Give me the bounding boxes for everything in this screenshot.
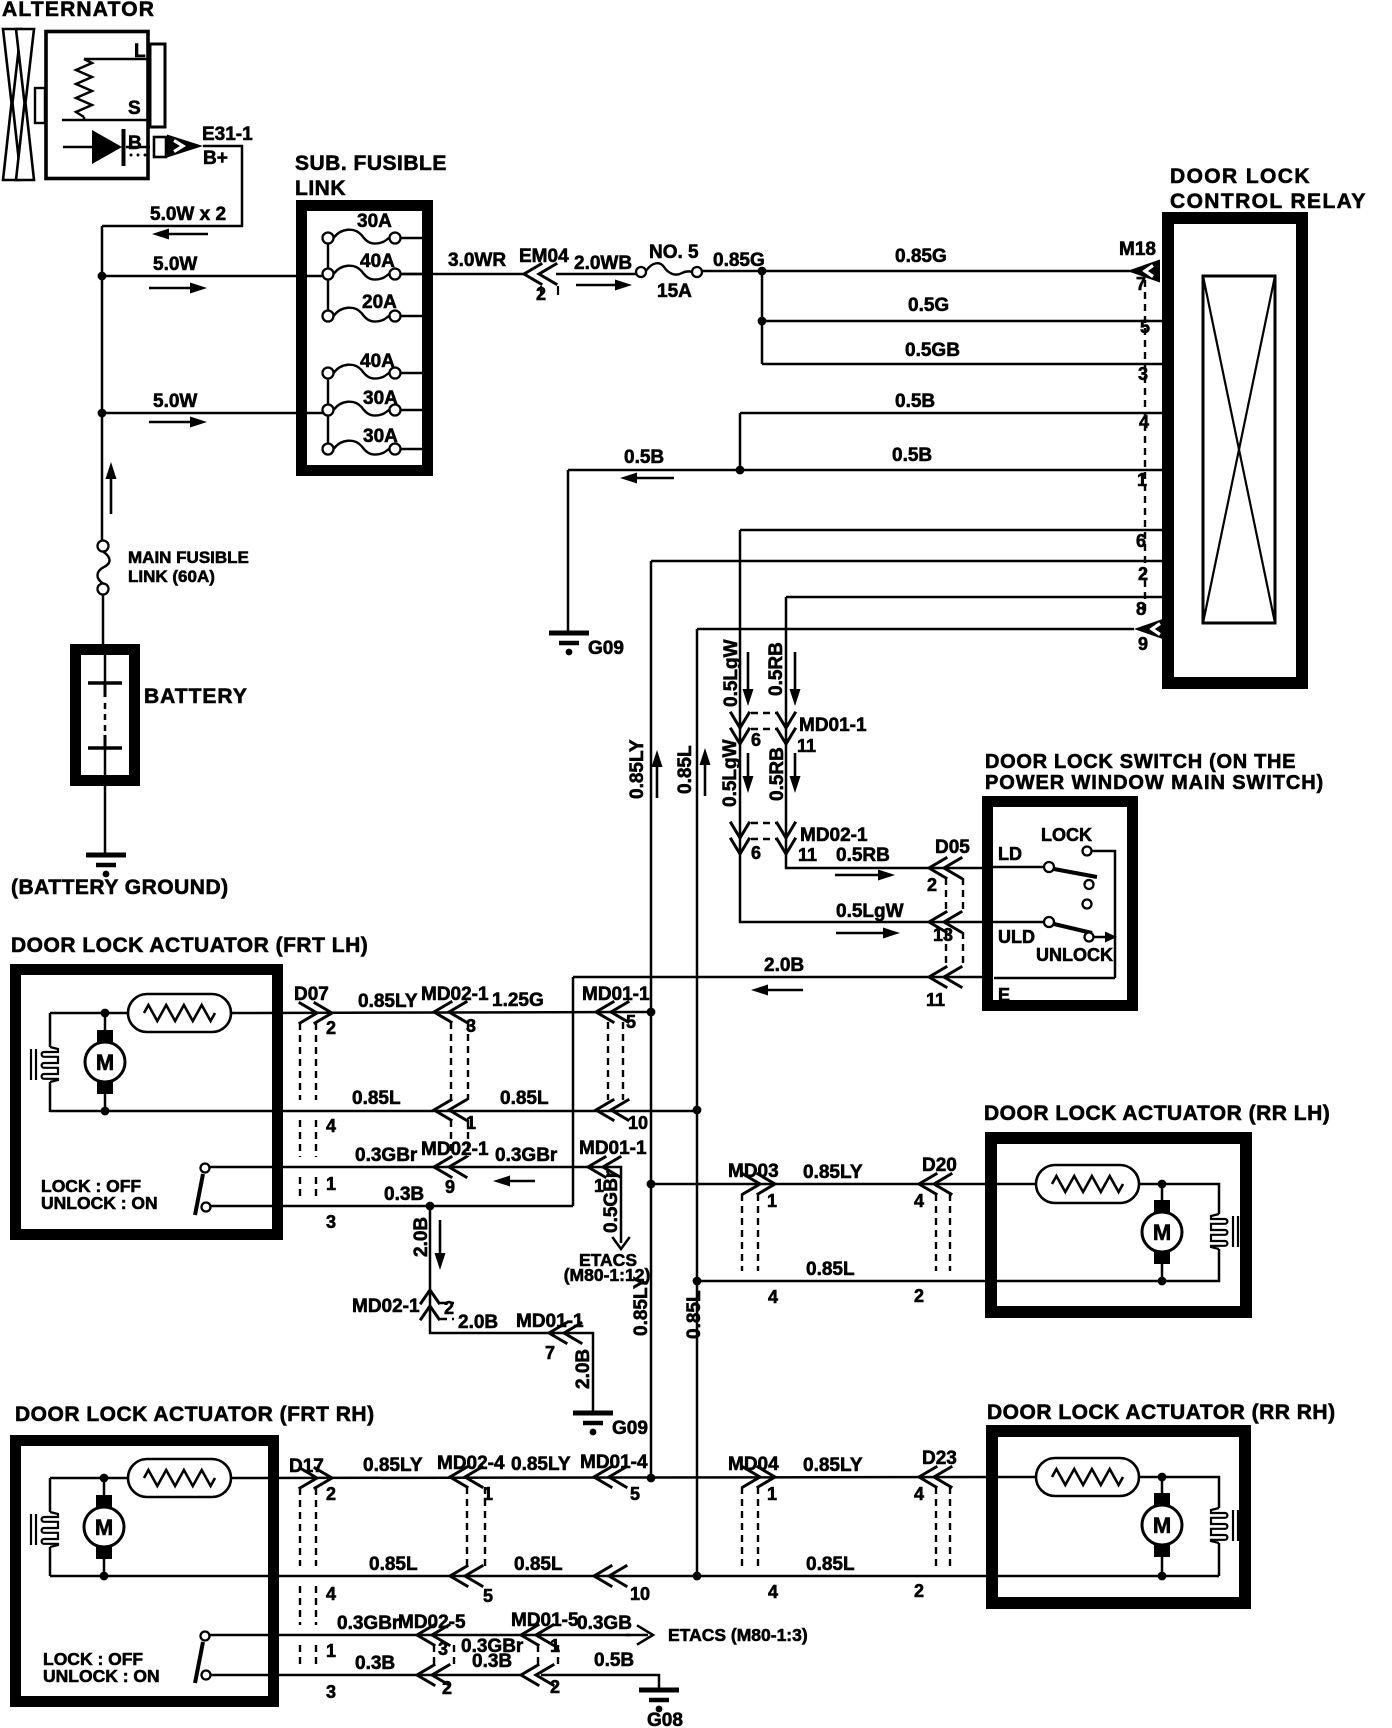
arrow ETACS 1 [613,1238,629,1249]
node 0.5G junction [758,317,767,326]
wire 2.0B vertical from D05 [572,977,575,1206]
label 0.5LgW [721,639,742,707]
label 0.3B FRT RH b [472,1651,512,1672]
svg-text:B+: B+ [203,148,228,169]
switch LD wire and lever [988,862,1097,889]
wire 5.0W lower [102,412,325,415]
label 0.3GBr FRT RH a [337,1613,400,1634]
svg-text:D20: D20 [922,1155,957,1176]
label UNLOCK ON FRT RH [43,1666,160,1686]
svg-text:DOOR LOCK ACTUATOR (FRT RH): DOOR LOCK ACTUATOR (FRT RH) [15,1403,375,1426]
svg-text:E31-1: E31-1 [202,124,253,145]
svg-text:MD01-5: MD01-5 [511,1610,579,1631]
svg-text:3: 3 [466,1016,476,1036]
svg-text:9: 9 [445,1177,455,1197]
svg-text:DOOR LOCK: DOOR LOCK [1170,165,1311,188]
FRT LH left branch [49,1013,52,1112]
svg-text:MD01-1: MD01-1 [516,1311,584,1332]
svg-text:0.85L: 0.85L [352,1088,401,1109]
alternator pulley [3,29,45,180]
label 0.3GBr FRT RH b [461,1636,524,1657]
FRT RH coil [31,1512,58,1547]
connector MD01-1 row2 [596,1100,648,1133]
connector MD02-4 [437,1453,505,1606]
wire 0.3B mid [437,1674,521,1677]
svg-text:11: 11 [797,736,816,756]
RR RH coil [1211,1508,1238,1543]
svg-text:0.3B: 0.3B [355,1653,395,1674]
svg-text:7: 7 [545,1343,555,1363]
svg-text:MD02-4: MD02-4 [437,1453,505,1474]
battery ground symbol [86,855,126,877]
svg-text:UNLOCK: UNLOCK [1036,945,1113,965]
actuator RR RH box [992,1431,1245,1603]
svg-text:0.5B: 0.5B [895,391,935,412]
svg-text:MD01-4: MD01-4 [580,1452,648,1473]
svg-text:5: 5 [630,1484,640,1504]
svg-text:D17: D17 [289,1456,324,1477]
svg-text:0.85G: 0.85G [895,246,947,267]
wire 0.3B row FRT RH [210,1674,437,1677]
svg-text:LD: LD [998,844,1022,864]
sub fusible link box [302,206,428,471]
svg-text:0.5GBr: 0.5GBr [601,1170,622,1233]
label ULD [998,927,1035,947]
label 0.85LY RR RH [803,1455,863,1476]
wire 0.5B pin4 drop [739,413,742,470]
svg-text:SUB. FUSIBLE: SUB. FUSIBLE [295,152,447,175]
switch middle contact [1083,900,1092,909]
label 0.85LY vert2 [631,1276,652,1336]
node 0.85L RH junction [693,1572,702,1581]
svg-text:0.5RB: 0.5RB [766,642,787,696]
svg-text:POWER WINDOW MAIN SWITCH): POWER WINDOW MAIN SWITCH) [985,772,1324,794]
wire 0.5GB pin3 [762,363,1166,366]
FRT LH coil [31,1047,58,1082]
wire battery bus vertical [101,226,104,545]
arrow ETACS 2 [626,1626,653,1644]
label 0.85L RR RH [806,1554,855,1575]
svg-text:0.85LY: 0.85LY [627,739,648,799]
main fusible link fuse [97,541,248,595]
pin 5 [1140,317,1150,337]
connector MD04 [728,1454,779,1602]
alternator terminal S [62,98,148,120]
pin 2 [1138,564,1148,584]
wire fuse to battery [102,594,105,650]
node 0.5B junction [736,466,745,475]
svg-text:9: 9 [1138,634,1148,654]
label 5.0W upper [153,254,197,275]
label 0.5B right [892,445,932,466]
node FRT LH bottom [101,1107,110,1116]
connector MD01-5 row4 [521,1665,553,1685]
arrow up 0.85LY [652,750,663,798]
connector MD01-1 row1 [582,984,650,1100]
svg-text:0.5LgW: 0.5LgW [836,901,904,922]
relay K1 box [1168,218,1302,683]
svg-text:0.85L: 0.85L [514,1554,563,1575]
RR LH motor M [1142,1184,1182,1281]
svg-text:15A: 15A [657,281,692,302]
svg-text:0.5GB: 0.5GB [905,340,960,361]
svg-text:M: M [1153,1220,1171,1245]
svg-text:11: 11 [798,845,817,865]
label LOCK OFF FRT LH [41,1176,141,1196]
svg-text:0.5B: 0.5B [892,445,932,466]
svg-text:MD02-1: MD02-1 [800,825,868,846]
label 0.5GB [905,340,960,361]
svg-text:4: 4 [326,1116,336,1136]
svg-text:4: 4 [914,1191,924,1211]
svg-text:5: 5 [626,1012,636,1032]
battery ground label [11,876,229,899]
svg-text:MD02-1: MD02-1 [352,1296,420,1317]
arrow left 5.0Wx2 [152,229,208,240]
wire 5.0W upper [102,275,325,278]
svg-text:3: 3 [1138,364,1148,384]
label 0.85LY row1 [358,991,418,1012]
wire 2.0B switch E [573,976,990,979]
fuse 30A #1 [323,211,427,244]
node FRT RH bottom [100,1572,109,1581]
svg-text:0.85LY: 0.85LY [803,1162,863,1183]
pin 3 [1138,364,1148,384]
svg-text:4: 4 [768,1582,778,1602]
node 0.85LY row1 junction [647,1008,656,1017]
svg-text:LINK (60A): LINK (60A) [128,567,215,586]
svg-text:ETACS (M80-1:3): ETACS (M80-1:3) [668,1625,808,1645]
arrow right 5.0W lower [149,417,207,428]
svg-text:UNLOCK : ON: UNLOCK : ON [41,1193,158,1213]
svg-text:1: 1 [483,1484,493,1504]
svg-text:2.0WB: 2.0WB [574,253,632,274]
svg-text:LINK: LINK [295,177,346,200]
wire 0.3B row4 [210,1205,573,1208]
svg-text:2.0B: 2.0B [573,1349,594,1389]
label 0.85LY RR LH [803,1162,863,1183]
label 3.0WR [448,250,506,271]
svg-text:DOOR LOCK ACTUATOR (FRT LH): DOOR LOCK ACTUATOR (FRT LH) [11,934,368,957]
svg-text:NO. 5: NO. 5 [649,242,699,263]
svg-text:0.3GBr: 0.3GBr [495,1145,558,1166]
wire 0.5LgW vertical [740,530,990,922]
svg-text:0.85L: 0.85L [675,745,696,794]
label 0.5LgW mid [720,739,741,807]
arrow left 0.3GBr [493,1176,535,1187]
arrow right 2.0WB [576,280,632,291]
wire 0.85G to relay pin7 [702,270,1130,273]
wire 0.5B pin1 [568,469,1166,472]
label 0.85G [713,250,765,271]
svg-text:ULD: ULD [998,927,1035,947]
svg-text:2: 2 [927,875,937,895]
svg-text:4: 4 [768,1287,778,1307]
wire 0.85L row2 [105,1110,697,1113]
svg-text:0.85L: 0.85L [500,1088,549,1109]
label 0.85L FRT RH b [514,1554,563,1575]
fuse 30A #2 [323,388,427,416]
fuse bus upper [327,240,329,316]
FRT LH motor M [85,1013,125,1111]
svg-text:1: 1 [767,1484,777,1504]
battery cells [88,655,122,855]
FRT RH left branch [49,1478,52,1576]
node RR LH row2 junction [693,1277,702,1286]
wire B+ to bus [102,146,242,226]
label UNLOCK [1036,945,1113,965]
svg-text:0.85L: 0.85L [369,1554,418,1575]
svg-text:MD02-1: MD02-1 [421,1139,489,1160]
svg-text:1: 1 [466,1113,476,1133]
label 0.5RB to switch [836,845,890,866]
arrow right 5.0W upper [149,283,207,294]
label 0.85L FRT RH a [369,1554,418,1575]
FRT LH switch [195,1164,211,1216]
FRT LH wire row2 internal [50,1110,105,1113]
fuse 40A #2 [323,351,427,379]
pin 1 [1137,470,1147,490]
svg-text:13: 13 [933,925,953,945]
svg-text:LOCK: LOCK [1041,825,1092,845]
label 0.85L row2a [352,1088,401,1109]
alternator terminal L [134,41,165,127]
svg-text:0.5B: 0.5B [624,447,664,468]
wire 0.85LY row FRT RH [231,1477,1036,1478]
switch unlock contact arrow [1094,932,1117,943]
node 0.85G junction [758,267,767,276]
label ETACS 2 [668,1625,808,1645]
label 0.85L RR LH [806,1259,855,1280]
wire 0.85L row FRT RH [104,1575,1219,1578]
alternator terminal B [154,137,166,157]
door lock actuator RR RH label [987,1401,1336,1424]
pin 6 [1136,531,1146,551]
node RR LH bottom [1158,1277,1167,1286]
connector MD01-4 [580,1452,650,1604]
battery box [76,650,135,781]
label LD [998,844,1022,864]
svg-text:EM04: EM04 [519,246,569,267]
label 0.5LgW to switch [836,901,904,922]
svg-text:0.3GBr: 0.3GBr [337,1613,400,1634]
label 0.5B left [624,447,664,468]
svg-text:1: 1 [326,1641,336,1661]
RR RH wire internal [1139,1477,1219,1576]
svg-text:0.85L: 0.85L [806,1554,855,1575]
node RR LH top [1158,1180,1167,1189]
connector EM04 [519,246,569,304]
arrow down 0.5LgW [743,652,754,706]
battery label [144,685,248,708]
wire pin2 0.85LY horizontal [651,560,1166,563]
door lock switch box [988,802,1133,1006]
svg-text:2: 2 [550,1677,560,1697]
arrow down 2.0B [435,1220,446,1270]
svg-text:G08: G08 [647,1710,683,1728]
svg-text:3: 3 [438,1639,448,1659]
svg-text:DOOR LOCK SWITCH (ON THE: DOOR LOCK SWITCH (ON THE [985,751,1296,773]
svg-text:0.85L: 0.85L [684,1290,705,1339]
RR RH resistor [1036,1458,1139,1496]
arrow down 0.5LgW mid [743,753,754,793]
switch ULD wire and lever [988,917,1094,942]
node RR RH bottom [1158,1572,1167,1581]
svg-text:M: M [96,1050,114,1075]
arrow down 0.5RB mid [790,753,801,793]
svg-text:0.85L: 0.85L [806,1259,855,1280]
svg-text:0.85LY: 0.85LY [511,1454,571,1475]
svg-text:3: 3 [326,1682,336,1702]
label 5.0W lower [153,391,197,412]
label 0.85LY FRT RH b [511,1454,571,1475]
connector D20 [914,1155,957,1306]
wire pin9 0.85L horizontal [697,628,1134,631]
svg-text:5.0W x 2: 5.0W x 2 [150,204,226,225]
actuator FRT LH box [16,970,278,1235]
svg-text:M: M [95,1515,113,1540]
wire 0.85LY vertical [650,561,653,1478]
svg-text:40A: 40A [360,251,395,272]
label 0.5B G08 [594,1650,634,1671]
door lock actuator FRT LH label [11,934,368,957]
label LOCK [1041,825,1092,845]
svg-text:30A: 30A [363,426,398,447]
node bus top junction [98,272,107,281]
svg-text:5: 5 [483,1586,493,1606]
svg-text:1.25G: 1.25G [492,990,544,1011]
node RR LH row1 junction [647,1180,656,1189]
svg-text:20A: 20A [362,292,397,313]
connector MD01-1 pin7 [516,1311,584,1363]
svg-text:30A: 30A [357,211,392,232]
connector M18 arrow pin9 [1134,618,1167,641]
label 0.3GB [577,1613,632,1634]
svg-text:11: 11 [926,990,945,1010]
fuse 30A #3 [323,426,427,455]
svg-text:0.3GBr: 0.3GBr [355,1145,418,1166]
svg-text:0.5G: 0.5G [908,295,949,316]
RR LH coil [1211,1214,1238,1249]
label 0.85G right [895,246,947,267]
svg-text:2: 2 [326,1484,336,1504]
svg-text:D23: D23 [922,1448,957,1469]
svg-text:M18: M18 [1119,239,1156,260]
node FRT RH top [100,1474,109,1483]
svg-text:MD02-1: MD02-1 [421,984,489,1005]
svg-text:DOOR LOCK ACTUATOR (RR RH): DOOR LOCK ACTUATOR (RR RH) [987,1401,1336,1424]
arrow down 0.5RB [790,652,801,706]
connector M18 dashed line [1144,280,1146,616]
label 2.0B rot2 [573,1349,594,1389]
label 2.0B horiz [458,1312,498,1333]
connector D17 [289,1456,336,1702]
wire 0.85LY RR LH [651,1183,1036,1186]
arrow right 0.5LgW [836,928,900,939]
svg-text:3.0WR: 3.0WR [448,250,506,271]
connector D05 [929,837,970,987]
pin 11 D05 [926,990,945,1010]
connector MD01-1 row3 [579,1138,647,1196]
actuator FRT RH box [16,1441,274,1702]
svg-text:MD01-1: MD01-1 [582,984,650,1005]
svg-text:3: 3 [326,1212,336,1232]
label 0.85L row2b [500,1088,549,1109]
ground G08 [639,1690,683,1728]
door lock actuator FRT RH label [15,1403,375,1426]
svg-text:1: 1 [326,1174,336,1194]
wire 3.0WR [400,273,524,276]
label 0.85L vert2 [684,1290,705,1339]
pin 9 [1138,634,1148,654]
wire 0.5RB vertical [786,597,990,868]
FRT RH wire row1 internal [50,1477,128,1480]
svg-text:40A: 40A [360,351,395,372]
svg-text:M: M [1153,1513,1171,1538]
door lock actuator RR LH label [984,1102,1330,1125]
svg-text:2: 2 [444,1298,454,1318]
node 0.3B junction [426,1202,435,1211]
svg-text:2.0B: 2.0B [458,1312,498,1333]
wire 0.5G pin5 [762,320,1166,323]
svg-text:E: E [998,985,1010,1005]
connector D07 [294,984,336,1232]
wire 0.85G branch vertical [761,271,764,364]
wire 0.85L vertical [696,629,699,1576]
wire 0.3GBr row3 [210,1167,621,1243]
label 2.0B [764,955,804,976]
connector MD02-1 row2 [434,1100,476,1133]
pin 2 D05 [927,875,937,895]
label 0.5B pin4 [895,391,935,412]
svg-text:30A: 30A [363,388,398,409]
svg-text:2.0B: 2.0B [764,955,804,976]
label UNLOCK ON FRT LH [41,1193,158,1213]
switch LOCK contact [1083,847,1116,979]
wire 2.0WB [556,273,636,276]
svg-text:MD01-1: MD01-1 [799,715,867,736]
FRT RH wire row2 internal [50,1575,104,1578]
connector MD02-1 row3 [421,1139,489,1197]
connector D23 [914,1448,957,1601]
label 0.5GBr [601,1170,622,1233]
svg-text:2.0B: 2.0B [411,1217,432,1257]
svg-text:0.85LY: 0.85LY [363,1455,423,1476]
svg-text:0.85LY: 0.85LY [631,1276,652,1336]
arrow right 0.5RB [835,870,895,881]
svg-text:1: 1 [767,1191,777,1211]
svg-text:0.3GB: 0.3GB [577,1613,632,1634]
pin 8 [1136,599,1146,619]
connector MD01-5 [511,1610,579,1697]
FRT RH motor M [84,1478,124,1576]
wire pin6 0.5LgW horizontal [740,529,1166,532]
svg-text:D05: D05 [935,837,970,858]
label 2.0WB [574,253,632,274]
node FRT LH top [101,1009,110,1018]
sub fusible link label [295,152,447,200]
node RR RH top [1158,1473,1167,1482]
svg-text:UNLOCK : ON: UNLOCK : ON [43,1666,160,1686]
label 2.0B rot1 [411,1217,432,1257]
door lock control relay label [1170,165,1367,213]
label 5.0W x 2 [150,204,226,225]
svg-text:ALTERNATOR: ALTERNATOR [2,0,155,21]
svg-text:CONTROL RELAY: CONTROL RELAY [1170,190,1367,213]
actuator RR LH box [991,1138,1246,1312]
label 0.3GBr row3b [495,1145,558,1166]
label 1.25G [492,990,544,1011]
